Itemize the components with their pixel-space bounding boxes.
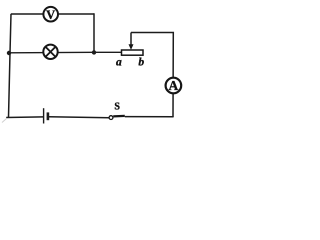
wire: middle vertical drop from top wire to lamp row junction: [93, 13, 95, 52]
wire: bottom segment from battery to switch pivot: [49, 116, 110, 119]
wire: left vertical from top-left corner to bottom-left corner: [9, 14, 12, 117]
svg-text:A: A: [169, 78, 179, 93]
lamp (circle with X): [43, 45, 57, 59]
voltmeter V: [43, 7, 58, 22]
wire: bottom right segment from switch to bottom-right corner: [125, 116, 174, 118]
wire: from slider up, across the top right, down to ammeter and bottom-right corner: [131, 33, 173, 118]
rheostat slider arrow: [129, 33, 134, 50]
ammeter A: [166, 78, 182, 94]
scan smudge near bottom-left corner: [2, 118, 7, 122]
switch S (pivot circle and blade): [109, 116, 125, 120]
wire: lamp branch horizontal row: [9, 51, 94, 54]
wire: top horizontal from left corner to middle corner: [11, 13, 94, 15]
node: left junction dot: [7, 51, 11, 55]
wire: bottom left segment from corner to battery: [6, 116, 43, 119]
wire: from middle junction to rheostat left terminal: [94, 51, 122, 53]
svg-text:b: b: [138, 56, 144, 68]
svg-text:S: S: [114, 101, 120, 112]
rheostat body (resistor box between a and b): [122, 50, 144, 55]
svg-text:a: a: [116, 56, 122, 68]
battery: [44, 108, 48, 123]
svg-text:V: V: [46, 8, 55, 22]
node: middle junction dot: [92, 50, 96, 54]
